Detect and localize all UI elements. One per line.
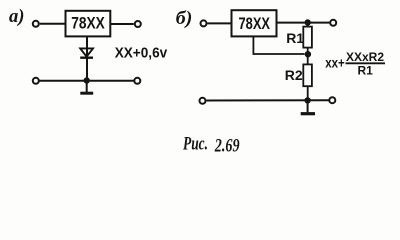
- svg-text:R1: R1: [358, 64, 374, 78]
- svg-text:XXxR2: XXxR2: [346, 50, 384, 64]
- svg-text:78XX: 78XX: [71, 15, 105, 33]
- svg-text:xx+: xx+: [325, 54, 345, 70]
- svg-text:78XX: 78XX: [239, 15, 271, 33]
- svg-text:XX+0,6v: XX+0,6v: [115, 45, 168, 61]
- svg-text:R2: R2: [285, 67, 303, 83]
- svg-text:2.69: 2.69: [214, 136, 240, 156]
- svg-text:б): б): [176, 8, 193, 29]
- svg-text:R1: R1: [286, 30, 304, 46]
- svg-text:а): а): [9, 6, 25, 27]
- svg-text:Рис.: Рис.: [182, 134, 208, 154]
